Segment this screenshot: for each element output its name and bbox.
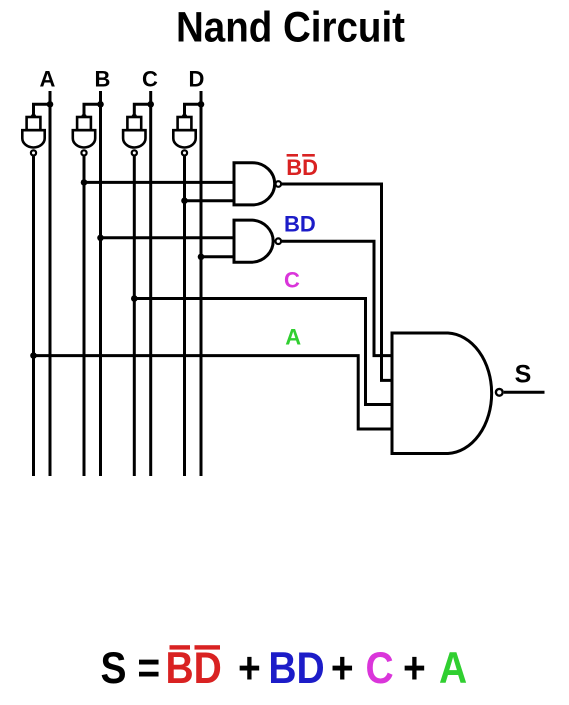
svg-text:S =: S = bbox=[101, 643, 161, 693]
svg-text:A: A bbox=[40, 67, 56, 92]
svg-text:A: A bbox=[285, 324, 301, 349]
svg-text:+: + bbox=[238, 643, 261, 693]
wire D to gate G2 bottom input bbox=[201, 255, 234, 258]
node inverter U1 input tie bbox=[31, 114, 36, 119]
wire NOT-D vertical bbox=[183, 156, 186, 476]
inverter U3 output bubble bbox=[132, 150, 137, 155]
wire A to inverter input bbox=[34, 104, 51, 117]
wire G1 output to big gate input 2 bbox=[282, 184, 393, 380]
nand gate G2 output bubble bbox=[276, 238, 282, 244]
svg-text:BD: BD bbox=[166, 643, 222, 693]
inverter U1 output bubble bbox=[31, 150, 36, 155]
svg-text:C: C bbox=[142, 67, 158, 92]
wire D to inverter input bbox=[185, 104, 202, 117]
svg-text:A: A bbox=[439, 643, 467, 693]
svg-text:BD: BD bbox=[284, 212, 316, 237]
svg-text:+: + bbox=[403, 643, 426, 693]
wire S output bbox=[504, 391, 545, 394]
node junction NOT-D tap bbox=[181, 197, 188, 204]
node junction NOT-A tap bbox=[30, 352, 37, 359]
label NOT-B NOT-D (red) bbox=[286, 154, 318, 180]
node A branch junction bbox=[47, 101, 54, 108]
wire NOT-B vertical bbox=[83, 156, 86, 476]
wire A vertical (direct) bbox=[49, 91, 52, 476]
wire B to inverter input bbox=[84, 104, 101, 117]
wire NOT-C to big gate input 3 bbox=[134, 299, 392, 405]
inverter U4 nand body bbox=[173, 130, 195, 147]
wire C vertical (direct) bbox=[149, 91, 152, 476]
svg-text:C: C bbox=[366, 643, 394, 693]
node inverter U2 input tie bbox=[81, 114, 86, 119]
inverter U4 input collar bbox=[178, 117, 192, 130]
node junction NOT-C tap bbox=[131, 295, 138, 302]
node junction NOT-B tap bbox=[81, 179, 88, 186]
svg-text:+: + bbox=[331, 643, 354, 693]
node B branch junction bbox=[97, 101, 104, 108]
inverter U3 input collar bbox=[127, 117, 141, 130]
svg-text:S: S bbox=[515, 361, 532, 389]
inverter U3 nand body bbox=[123, 130, 145, 147]
wire C to inverter input bbox=[134, 104, 150, 117]
nand gate G1 body bbox=[234, 163, 275, 205]
svg-text:BD: BD bbox=[286, 155, 318, 180]
inverter U2 output bubble bbox=[81, 150, 86, 155]
wire D vertical (direct) bbox=[200, 91, 203, 476]
svg-text:D: D bbox=[189, 67, 205, 92]
svg-text:Nand Circuit: Nand Circuit bbox=[176, 3, 405, 50]
svg-text:BD: BD bbox=[268, 643, 324, 693]
inverter U2 nand body bbox=[73, 130, 95, 147]
overbar on equation red B bbox=[170, 645, 191, 649]
wire NOT-A vertical bbox=[32, 156, 35, 476]
node inverter U3 input tie bbox=[132, 114, 137, 119]
svg-text:C: C bbox=[284, 267, 300, 292]
wire B to gate G2 top input bbox=[101, 236, 235, 239]
wire B vertical (direct) bbox=[99, 91, 102, 476]
overbar on equation red D bbox=[195, 645, 221, 649]
wire NOT-D to gate G1 bottom input bbox=[185, 199, 235, 202]
nand gate G3 output bubble bbox=[496, 389, 503, 396]
nand gate G2 body bbox=[234, 220, 273, 262]
nand gate G1 output bubble bbox=[276, 181, 282, 187]
node inverter U4 input tie bbox=[182, 114, 187, 119]
svg-text:B: B bbox=[95, 67, 111, 92]
inverter U2 input collar bbox=[77, 117, 91, 130]
wire NOT-C vertical bbox=[133, 156, 136, 476]
node junction B tap bbox=[97, 235, 104, 242]
inverter U1 nand body bbox=[22, 130, 44, 147]
inverter U4 output bubble bbox=[182, 150, 187, 155]
equation S = NOT-B NOT-D + BD + C + A bbox=[101, 643, 468, 693]
wire NOT-A to big gate input 4 bbox=[34, 356, 393, 429]
node D branch junction bbox=[198, 101, 205, 108]
inverter U1 input collar bbox=[27, 117, 41, 130]
node C branch junction bbox=[147, 101, 154, 108]
nand gate G3 (output) body bbox=[392, 333, 492, 454]
wire G2 output to big gate input 1 bbox=[282, 241, 393, 355]
wire NOT-B to gate G1 top input bbox=[84, 181, 234, 184]
node junction D tap bbox=[198, 253, 205, 260]
